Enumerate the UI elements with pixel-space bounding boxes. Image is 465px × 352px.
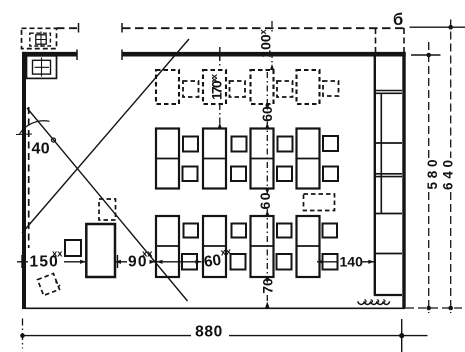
sight line diagonal 1 bbox=[22, 39, 189, 233]
arrow 60h right bbox=[196, 260, 202, 264]
axis dot bottom-left bbox=[20, 333, 25, 338]
axis marker bottom-left vertical bbox=[22, 319, 24, 349]
axis line top short bbox=[57, 27, 79, 29]
arrow 60a down bbox=[265, 123, 269, 129]
cabinet divider 3b bbox=[374, 176, 402, 178]
desk row2 col4 divider bbox=[297, 158, 320, 160]
dim 880 line bbox=[23, 335, 428, 337]
teacher chair solid bbox=[65, 240, 81, 256]
desk row2 col3 divider bbox=[251, 158, 274, 160]
washbasin phantom inner bbox=[30, 33, 51, 46]
phantom desk row1 col2 bbox=[203, 70, 226, 104]
cabinet divider 5 bbox=[374, 253, 402, 255]
dim chain main vertical line bbox=[267, 21, 272, 308]
desk row3 col2 bbox=[203, 216, 226, 277]
phantom desk row1 col4 bbox=[297, 70, 320, 104]
svg-text:640: 640 bbox=[441, 160, 456, 190]
svg-text:580: 580 bbox=[425, 160, 440, 190]
teacher desk bbox=[86, 224, 115, 277]
phantom chair row1 col3 bbox=[277, 81, 293, 97]
door jamb tick right bbox=[121, 50, 123, 61]
phantom desk row1 col1 bbox=[156, 70, 179, 104]
dim chain 170 line bbox=[219, 55, 221, 129]
chair row2 col4 bottom bbox=[323, 167, 338, 182]
wall top-left segment bbox=[22, 52, 77, 57]
desk row2 col2 divider bbox=[203, 158, 226, 160]
chair row3 col2 top bbox=[232, 224, 247, 238]
desk row3 col1 divider bbox=[156, 245, 179, 247]
svg-text:б: б bbox=[393, 11, 403, 29]
radiator curls bbox=[364, 300, 385, 303]
desk row2 col1 divider bbox=[156, 158, 179, 160]
arrow 90 left bbox=[115, 260, 121, 264]
dim horizontal 140 line bbox=[317, 261, 374, 263]
degree mark bbox=[52, 138, 56, 142]
phantom tilted chair bbox=[38, 274, 60, 296]
chair row2 col1 top bbox=[183, 137, 198, 152]
svg-text:70: 70 bbox=[260, 278, 276, 294]
phantom chair row1 col4 bbox=[323, 81, 339, 96]
phantom chair row1 col2 bbox=[230, 81, 246, 97]
screen dashed line on left wall bbox=[28, 107, 30, 248]
chair row3 col3 top bbox=[277, 224, 292, 238]
cabinet bottom bbox=[374, 294, 402, 296]
axis line bottom right extension bbox=[406, 307, 465, 309]
phantom desk row1 col3 bbox=[251, 70, 274, 104]
axis drop right wall bbox=[403, 28, 405, 53]
axis 640 top line bbox=[410, 26, 465, 28]
axis dot 580 top bbox=[426, 53, 431, 58]
angle arc 40 bbox=[19, 121, 50, 135]
cabinet divider 1a bbox=[374, 90, 402, 92]
chair row2 col1 bottom bbox=[183, 167, 198, 182]
svg-text:40: 40 bbox=[32, 141, 50, 158]
dim horizontal 90 line bbox=[115, 261, 156, 263]
door axis tick right bbox=[121, 23, 123, 33]
chair row3 col2 bottom bbox=[231, 254, 246, 270]
arrow 70 down bbox=[265, 302, 269, 308]
wall bottom bbox=[22, 307, 405, 309]
axis 640 vertical bbox=[450, 20, 452, 314]
radiator coil bbox=[358, 301, 389, 304]
svg-text:xx: xx bbox=[220, 246, 233, 258]
axis 580 top line bbox=[411, 54, 441, 56]
axis dot 640 top bbox=[448, 25, 453, 30]
dim horizontal 150 wall tick bbox=[21, 255, 23, 268]
sight line diagonal 2 bbox=[27, 108, 188, 301]
arrow 140 right bbox=[368, 260, 374, 264]
chair row2 col3 bottom bbox=[277, 167, 292, 182]
cabinet divider 4 bbox=[374, 213, 402, 215]
washbasin phantom outer bbox=[22, 28, 57, 48]
chair row2 col3 top bbox=[278, 137, 293, 152]
arrow 150 right bbox=[80, 260, 86, 264]
svg-text:xx: xx bbox=[52, 249, 63, 260]
cabinet front line bbox=[374, 54, 376, 296]
arrow 170 down bbox=[218, 123, 222, 129]
cabinet inner line bbox=[380, 93, 382, 213]
tilted chair mark bbox=[56, 282, 61, 287]
desk row2 col2 bbox=[203, 129, 226, 189]
washbasin phantom cross bbox=[36, 32, 46, 48]
cabinet divider 3a bbox=[374, 173, 402, 175]
svg-text:xx: xx bbox=[142, 249, 153, 260]
chair row3 col4 top bbox=[323, 224, 338, 238]
desk row2 col3 bbox=[251, 129, 274, 189]
axis drop left of right wall bbox=[375, 28, 377, 53]
arrow 140 left bbox=[317, 260, 323, 264]
svg-text:60: 60 bbox=[203, 252, 222, 271]
axis dot 580 bottom bbox=[426, 306, 431, 311]
chair row3 col1 bottom bbox=[182, 254, 197, 270]
arrow 90 right bbox=[150, 260, 156, 264]
chair row3 col1 top bbox=[184, 224, 199, 238]
door axis tick left bbox=[78, 23, 80, 33]
arrow 100 down bbox=[270, 64, 274, 70]
arrow 60a up bbox=[265, 105, 269, 111]
chair row2 col2 top bbox=[232, 137, 247, 152]
dim horizontal 150 line bbox=[17, 261, 86, 263]
desk row3 col2 divider bbox=[203, 245, 226, 247]
wall top main segment bbox=[122, 52, 406, 57]
phantom teacher chair bbox=[99, 199, 116, 220]
arrow 60b down bbox=[265, 210, 269, 216]
axis dot 640 bottom bbox=[448, 306, 453, 311]
wall right bbox=[402, 52, 405, 309]
washbasin phantom core bbox=[36, 35, 46, 44]
svg-text:880: 880 bbox=[195, 324, 223, 341]
arrow 60h left bbox=[157, 260, 163, 264]
dim horizontal 90 tick bbox=[117, 255, 119, 268]
arrow 70 up bbox=[265, 278, 269, 284]
axis line top long bbox=[122, 27, 404, 29]
desk row3 col3 divider bbox=[251, 245, 274, 247]
cabinet divider 2 bbox=[374, 142, 402, 144]
axis 580 vertical bbox=[428, 42, 430, 313]
svg-text:60: 60 bbox=[257, 192, 273, 209]
desk row3 col4 bbox=[297, 216, 320, 277]
desk row3 col3 bbox=[251, 216, 274, 277]
phantom chair row1 col1 bbox=[183, 81, 199, 97]
phantom rect mid right bbox=[304, 194, 335, 211]
chair row3 col4 bottom bbox=[323, 254, 338, 270]
desk row2 col1 bbox=[156, 129, 179, 189]
chair row2 col4 top bbox=[323, 136, 338, 151]
svg-text:60: 60 bbox=[259, 106, 275, 122]
washbasin real outer bbox=[27, 56, 57, 79]
desk row3 col1 bbox=[156, 216, 179, 277]
chair row3 col3 bottom bbox=[277, 254, 292, 270]
arrow 60b up bbox=[265, 189, 269, 195]
cabinet divider 1b bbox=[374, 92, 402, 94]
svg-text:140: 140 bbox=[340, 254, 364, 270]
washbasin real cross bbox=[35, 58, 50, 77]
dim horizontal 60 line bbox=[157, 261, 202, 263]
door jamb tick left bbox=[76, 50, 78, 61]
chair row2 col2 bottom bbox=[231, 167, 246, 182]
wall left bbox=[22, 52, 26, 309]
washbasin real inner bbox=[33, 60, 51, 74]
angle wall tick bbox=[16, 133, 32, 136]
desk row2 col4 bbox=[297, 129, 320, 189]
axis marker bottom-right vertical bbox=[401, 319, 403, 352]
dim chain 170 tick at wall bbox=[219, 47, 221, 61]
desk row3 col4 divider bbox=[297, 245, 320, 247]
axis dot bottom-right bbox=[399, 333, 404, 338]
